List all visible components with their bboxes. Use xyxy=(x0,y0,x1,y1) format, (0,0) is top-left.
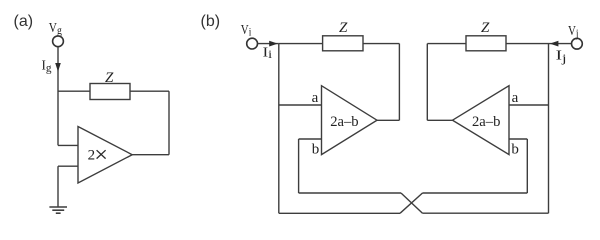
wire: b input vertical down (right) xyxy=(526,139,528,193)
wire: bottom input of 2x amp xyxy=(58,165,78,167)
svg-text:a: a xyxy=(312,90,319,106)
svg-text:b: b xyxy=(312,141,320,157)
wire: left feedback vertical xyxy=(398,44,400,121)
source circle Vg xyxy=(53,36,64,47)
wire: a input (right amp) xyxy=(509,104,549,106)
svg-text:Ig: Ig xyxy=(42,59,52,75)
wire: node i to resistor Z left xyxy=(279,43,323,45)
wire: crossing diagonal (lower-left to upper-right) xyxy=(400,193,423,213)
svg-text:2a–b: 2a–b xyxy=(330,114,358,130)
resistor Z (b right) xyxy=(466,36,506,51)
resistor Z (a) xyxy=(90,84,130,100)
wire: b input vertical down (left) xyxy=(298,139,300,193)
wire: left inner bottom horizontal xyxy=(299,192,401,194)
op-amp right 2a-b triangle xyxy=(453,86,510,155)
svg-text:Vg: Vg xyxy=(49,21,62,37)
wire: Vg circle down to node, through to amp top input corner xyxy=(57,47,59,146)
wire: node to resistor Z (a) xyxy=(58,90,90,92)
current arrow Ij (left) xyxy=(550,41,559,47)
wire: resistor to node j xyxy=(506,43,549,45)
wire: b input (left amp) xyxy=(299,138,322,140)
amplifier 2x triangle xyxy=(78,127,132,184)
svg-text:Z: Z xyxy=(105,70,114,86)
wire: crossing diagonal (upper-left to lower-right) xyxy=(401,193,423,213)
wire: right inner bottom horizontal xyxy=(423,192,528,194)
op-amp left 2a-b triangle xyxy=(322,86,378,155)
wire: bottom input down to ground xyxy=(57,166,59,207)
current arrow Ig (down) xyxy=(55,63,61,72)
svg-text:Vj: Vj xyxy=(568,24,579,40)
wire: top input of 2x amp xyxy=(58,144,78,146)
wire: amp output to feedback corner xyxy=(132,154,169,156)
svg-text:Ii: Ii xyxy=(263,45,273,61)
wire: a input (left amp) xyxy=(279,104,322,106)
wire: left amp output xyxy=(377,119,399,121)
resistor Z (b left) xyxy=(323,36,363,51)
wire: right outer vertical (node j down) xyxy=(548,44,550,214)
svg-text:a: a xyxy=(512,90,519,106)
svg-text:b: b xyxy=(511,141,519,157)
ground xyxy=(49,207,67,213)
svg-text:2a–b: 2a–b xyxy=(472,114,500,130)
wire: right feedback corner to resistor xyxy=(427,43,466,45)
wire: node j to Vj circle xyxy=(549,43,572,45)
wire: left outer vertical (node i down) xyxy=(278,44,280,214)
wire: right outer bottom horizontal xyxy=(423,212,549,214)
wire: Vi circle to node i xyxy=(258,43,279,45)
source circle Vj xyxy=(572,38,583,49)
wire: right feedback vertical xyxy=(426,44,428,121)
svg-text:Vi: Vi xyxy=(241,23,252,39)
current arrow Ii (right) xyxy=(269,41,278,47)
svg-text:(a): (a) xyxy=(14,13,34,30)
wire: b input (right amp) xyxy=(509,138,527,140)
source circle Vi xyxy=(247,38,258,49)
svg-text:(b): (b) xyxy=(201,13,221,30)
wire: resistor to feedback corner xyxy=(363,43,399,45)
svg-text:Z: Z xyxy=(339,20,348,36)
wire: resistor Z to right corner xyxy=(130,90,169,92)
svg-text:Ij: Ij xyxy=(556,49,567,65)
wire: right vertical feedback xyxy=(168,91,170,155)
svg-text:2: 2 xyxy=(88,147,96,163)
svg-text:Z: Z xyxy=(481,20,490,36)
wire: right amp output xyxy=(427,119,452,121)
wire: left outer bottom horizontal xyxy=(279,212,400,214)
